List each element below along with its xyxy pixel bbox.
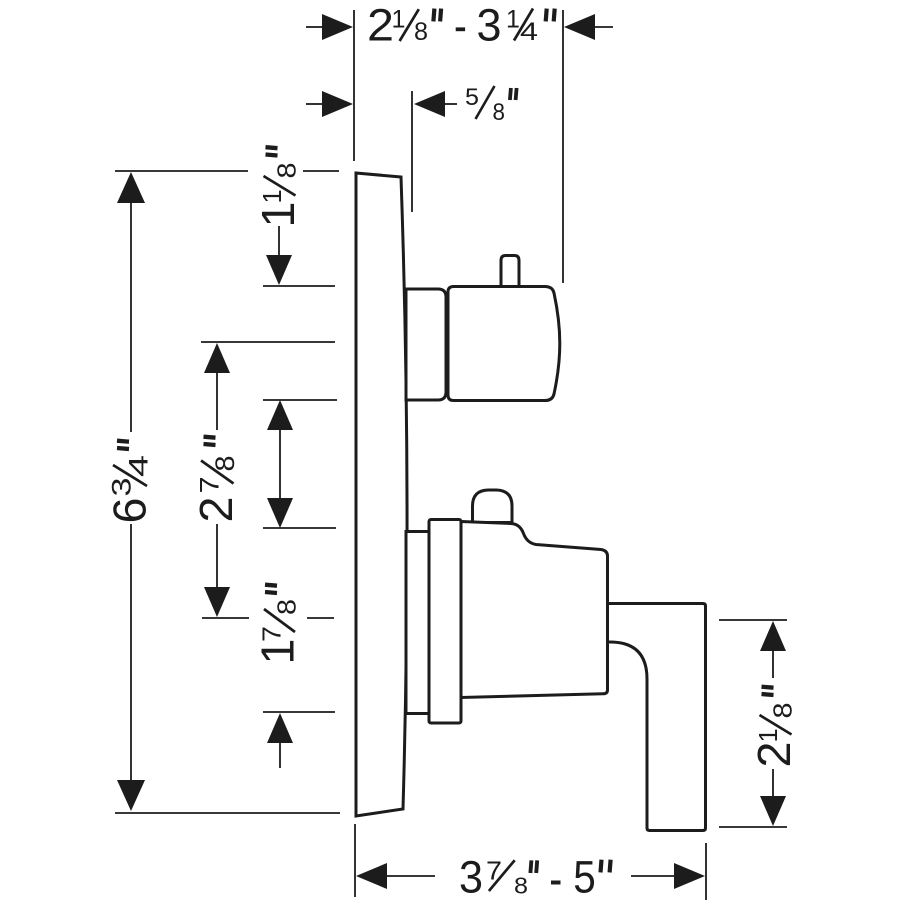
svg-text:7: 7 bbox=[195, 477, 225, 494]
extension line y=813 bottom bbox=[115, 812, 340, 814]
dimension 1 1/8" down arrow bbox=[278, 226, 280, 256]
bottom extension line left (x=355) bbox=[354, 824, 356, 897]
svg-text:1: 1 bbox=[755, 728, 783, 742]
dimension 2 7/8" down arrow bbox=[216, 524, 218, 588]
svg-text:8: 8 bbox=[210, 456, 240, 472]
trim plate outline (side profile) bbox=[356, 173, 407, 816]
bottom dimension left arrow bbox=[356, 863, 387, 889]
middle chain connector line bbox=[279, 430, 281, 498]
extension line y=712 bbox=[263, 711, 335, 713]
bottom extension line right (x=706) bbox=[705, 843, 707, 900]
thermostat handle stem bbox=[501, 256, 519, 288]
svg-text:4: 4 bbox=[124, 455, 154, 477]
svg-text:1: 1 bbox=[392, 6, 406, 34]
dimension text 5/8" bbox=[465, 84, 517, 126]
right dimension 2 1/8" up arrow bbox=[760, 621, 786, 651]
dimension 6 3/4" up arrow bbox=[117, 172, 145, 203]
svg-text:1: 1 bbox=[259, 189, 287, 203]
right dimension 2 1/8" bottom extension line bbox=[719, 826, 787, 828]
bottom dimension right arrow bbox=[674, 863, 705, 889]
right dimension 2 1/8" down arrow bbox=[772, 769, 774, 797]
svg-text:8: 8 bbox=[274, 163, 302, 179]
svg-text:8: 8 bbox=[514, 873, 528, 899]
svg-text:2: 2 bbox=[190, 497, 242, 523]
svg-text:6: 6 bbox=[104, 498, 156, 524]
extension line y=528 bbox=[263, 527, 336, 529]
svg-text:8: 8 bbox=[414, 18, 428, 46]
svg-text:7: 7 bbox=[486, 856, 502, 886]
thermostat handle body bbox=[448, 287, 560, 401]
middle chain down arrow at y=528 bbox=[267, 498, 293, 528]
lower valve sleeve bbox=[406, 532, 429, 714]
svg-text:5: 5 bbox=[573, 852, 596, 900]
svg-text:8: 8 bbox=[272, 599, 302, 615]
dimension text 6 3/4" (rotated) bbox=[104, 441, 156, 524]
dimension text 2 1/8" right (rotated) bbox=[748, 687, 800, 768]
dimension arrow 5/8 left bbox=[322, 91, 353, 117]
extension line y=400 bbox=[263, 399, 337, 401]
svg-text:2: 2 bbox=[367, 0, 394, 51]
dimension 2 7/8" up arrow bbox=[204, 343, 230, 373]
svg-text:1: 1 bbox=[506, 6, 520, 34]
svg-text:4: 4 bbox=[520, 18, 538, 46]
extension line y=342 bbox=[201, 341, 335, 343]
svg-text:3: 3 bbox=[477, 0, 502, 51]
dimension text 1 1/8" (rotated) bbox=[252, 147, 304, 227]
extension line 5/8 (x=412) bbox=[411, 91, 413, 212]
extension line y=618 right part bbox=[307, 617, 334, 619]
dimension text 2 1/8" - 3 1/4" bbox=[367, 0, 555, 51]
dimension arrow top-right bbox=[564, 14, 595, 40]
extension line right (x=563 top) bbox=[562, 10, 564, 283]
volume control flange bbox=[429, 520, 461, 724]
dimension text 2 7/8" (rotated) bbox=[190, 437, 242, 523]
dimension arrow 5/8 pointing left bbox=[414, 91, 445, 117]
svg-text:5: 5 bbox=[465, 84, 479, 111]
extension line y=286 bbox=[263, 285, 335, 287]
dimension 1 7/8" up arrow at y=713 bbox=[267, 713, 293, 743]
extension line y=171 left part bbox=[115, 170, 248, 172]
dimension text 3 7/8" - 5" bbox=[459, 852, 611, 900]
dimension 6 3/4" down arrow bbox=[130, 524, 132, 781]
right dimension 2 1/8" top extension line bbox=[719, 619, 787, 621]
extension line y=171 right part bbox=[303, 170, 339, 172]
svg-text:2: 2 bbox=[748, 742, 800, 768]
middle chain up arrow at y=400 bbox=[267, 400, 293, 430]
svg-text:8: 8 bbox=[493, 99, 506, 126]
extension line left (x=354 top) bbox=[353, 10, 355, 161]
lever handle bbox=[608, 604, 706, 831]
svg-text:7: 7 bbox=[257, 626, 287, 642]
extension line y=618 left part bbox=[202, 617, 249, 619]
volume control hub body bbox=[461, 522, 608, 698]
svg-text:8: 8 bbox=[770, 703, 798, 719]
upper valve sleeve bbox=[406, 289, 446, 400]
volume control knob cap bbox=[473, 490, 513, 523]
dimension arrow top-left bbox=[322, 14, 353, 40]
svg-text:3: 3 bbox=[107, 478, 137, 497]
dimension text 1 7/8" (rotated) bbox=[252, 585, 304, 665]
svg-text:1: 1 bbox=[252, 202, 304, 228]
svg-text:3: 3 bbox=[459, 852, 483, 900]
